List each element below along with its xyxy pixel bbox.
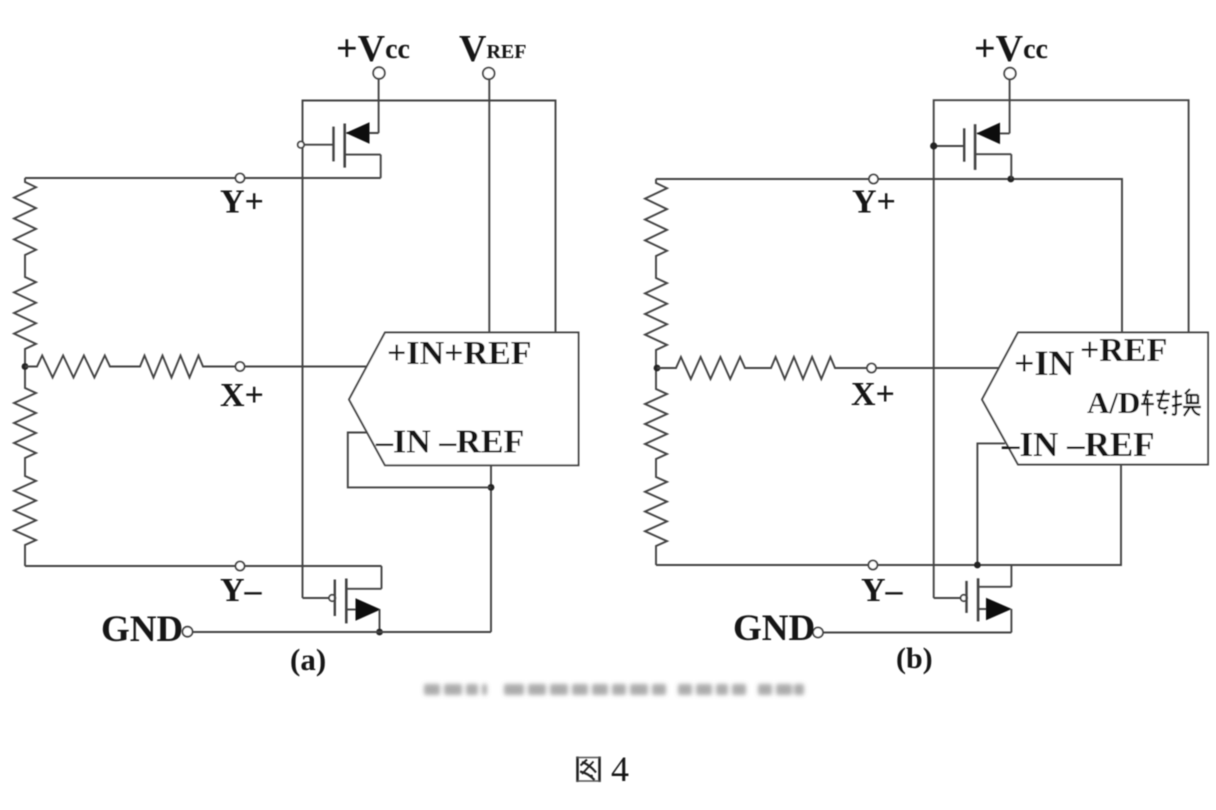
svg-text:Y–: Y– [220, 572, 263, 609]
svg-text:+IN: +IN [1014, 343, 1075, 383]
svg-text:A/D: A/D [1087, 385, 1140, 420]
svg-text:(b): (b) [896, 642, 933, 675]
svg-text:X+: X+ [851, 376, 895, 413]
svg-text:+Vcc: +Vcc [336, 28, 410, 70]
svg-text:–IN –REF: –IN –REF [1001, 425, 1155, 464]
svg-text:+IN+REF: +IN+REF [387, 335, 532, 372]
svg-text:Y–: Y– [861, 572, 904, 609]
svg-text:–IN –REF: –IN –REF [375, 424, 524, 461]
svg-text:4: 4 [611, 749, 629, 789]
svg-text:+REF: +REF [1080, 332, 1167, 369]
svg-text:(a): (a) [290, 642, 326, 677]
svg-text:Y+: Y+ [220, 184, 264, 221]
svg-text:GND: GND [101, 609, 183, 650]
svg-text:X+: X+ [220, 377, 264, 414]
svg-text:Y+: Y+ [852, 184, 896, 221]
svg-text:+Vcc: +Vcc [974, 28, 1048, 70]
svg-text:GND: GND [733, 608, 815, 649]
